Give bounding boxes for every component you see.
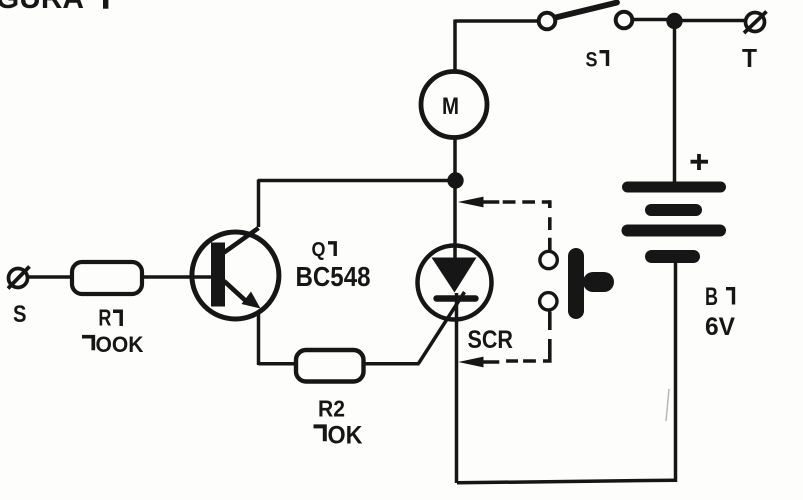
- svg-text:SCR: SCR: [468, 326, 514, 354]
- svg-text:BC548: BC548: [296, 261, 371, 292]
- label Q1: [312, 239, 336, 261]
- label S1: [586, 49, 608, 72]
- wire: emitter branch horizontal to R2: [259, 362, 298, 366]
- wire: junction to terminal T: [682, 19, 744, 23]
- junction node at battery top: [666, 13, 682, 29]
- wire: gate diagonal into SCR: [419, 292, 465, 364]
- switch S1: [539, 3, 633, 30]
- terminal S (screw): [8, 267, 30, 289]
- label 100K: [82, 332, 144, 357]
- figure title "GURA 1" (clipped at top): [0, 0, 108, 15]
- wire: vertical from top corner down to motor M: [453, 20, 457, 74]
- wire: top horizontal from motor branch to switch S1: [455, 19, 538, 23]
- label R1: [98, 305, 121, 331]
- wire: vertical collector branch down to transistor Q1: [257, 180, 261, 228]
- transistor Q1: [192, 228, 279, 319]
- svg-text:T: T: [742, 43, 757, 73]
- svg-text:OOK: OOK: [96, 332, 145, 357]
- pushbutton actuator: [576, 256, 604, 311]
- svg-text:S: S: [586, 49, 598, 72]
- junction node at motor/SCR/collector: [447, 172, 463, 188]
- wire: battery negative down to bottom rail: [674, 263, 678, 482]
- svg-text:B: B: [705, 283, 718, 311]
- wire: terminal S to R1: [28, 275, 72, 279]
- svg-text:R: R: [98, 305, 111, 331]
- wire: motor bottom to junction node: [453, 137, 457, 183]
- svg-text:Q: Q: [312, 239, 326, 261]
- label B1: [705, 283, 734, 311]
- dashed link: lower arrow into SCR cathode wire: [458, 312, 551, 368]
- resistor R2: [296, 350, 364, 382]
- terminal T (screw): [744, 12, 767, 34]
- wire: SCR cathode down to bottom rail: [455, 293, 459, 483]
- motor M1: [421, 72, 487, 138]
- label 10K: [314, 422, 363, 450]
- resistor R1: [72, 262, 142, 294]
- wire: switch S1 to junction node: [633, 18, 668, 22]
- svg-text:M: M: [442, 93, 459, 120]
- svg-text:OK: OK: [328, 422, 363, 450]
- wire: bottom rail: [457, 480, 676, 483]
- pushbutton contact lower: [540, 293, 557, 310]
- svg-text:6V: 6V: [705, 313, 735, 341]
- svg-text:S: S: [13, 301, 27, 328]
- SCR: [418, 244, 492, 320]
- dashed link: upper arrow into SCR anode wire: [458, 197, 550, 251]
- scan artifact line: [666, 389, 669, 421]
- wire: junction down to battery positive: [673, 21, 677, 183]
- wire: gate horizontal from R2: [364, 362, 420, 366]
- svg-text:GURA: GURA: [0, 0, 84, 15]
- wire: emitter branch vertical: [257, 306, 261, 365]
- pushbutton contact upper: [540, 251, 557, 268]
- wire: junction down to SCR anode: [453, 183, 457, 247]
- svg-text:R2: R2: [318, 396, 345, 422]
- battery B1 plates: [628, 187, 721, 257]
- wire: horizontal from junction left to collector branch: [258, 179, 455, 183]
- wire: base lead from R1 to transistor: [142, 275, 212, 279]
- battery B1 plus sign: [691, 154, 709, 170]
